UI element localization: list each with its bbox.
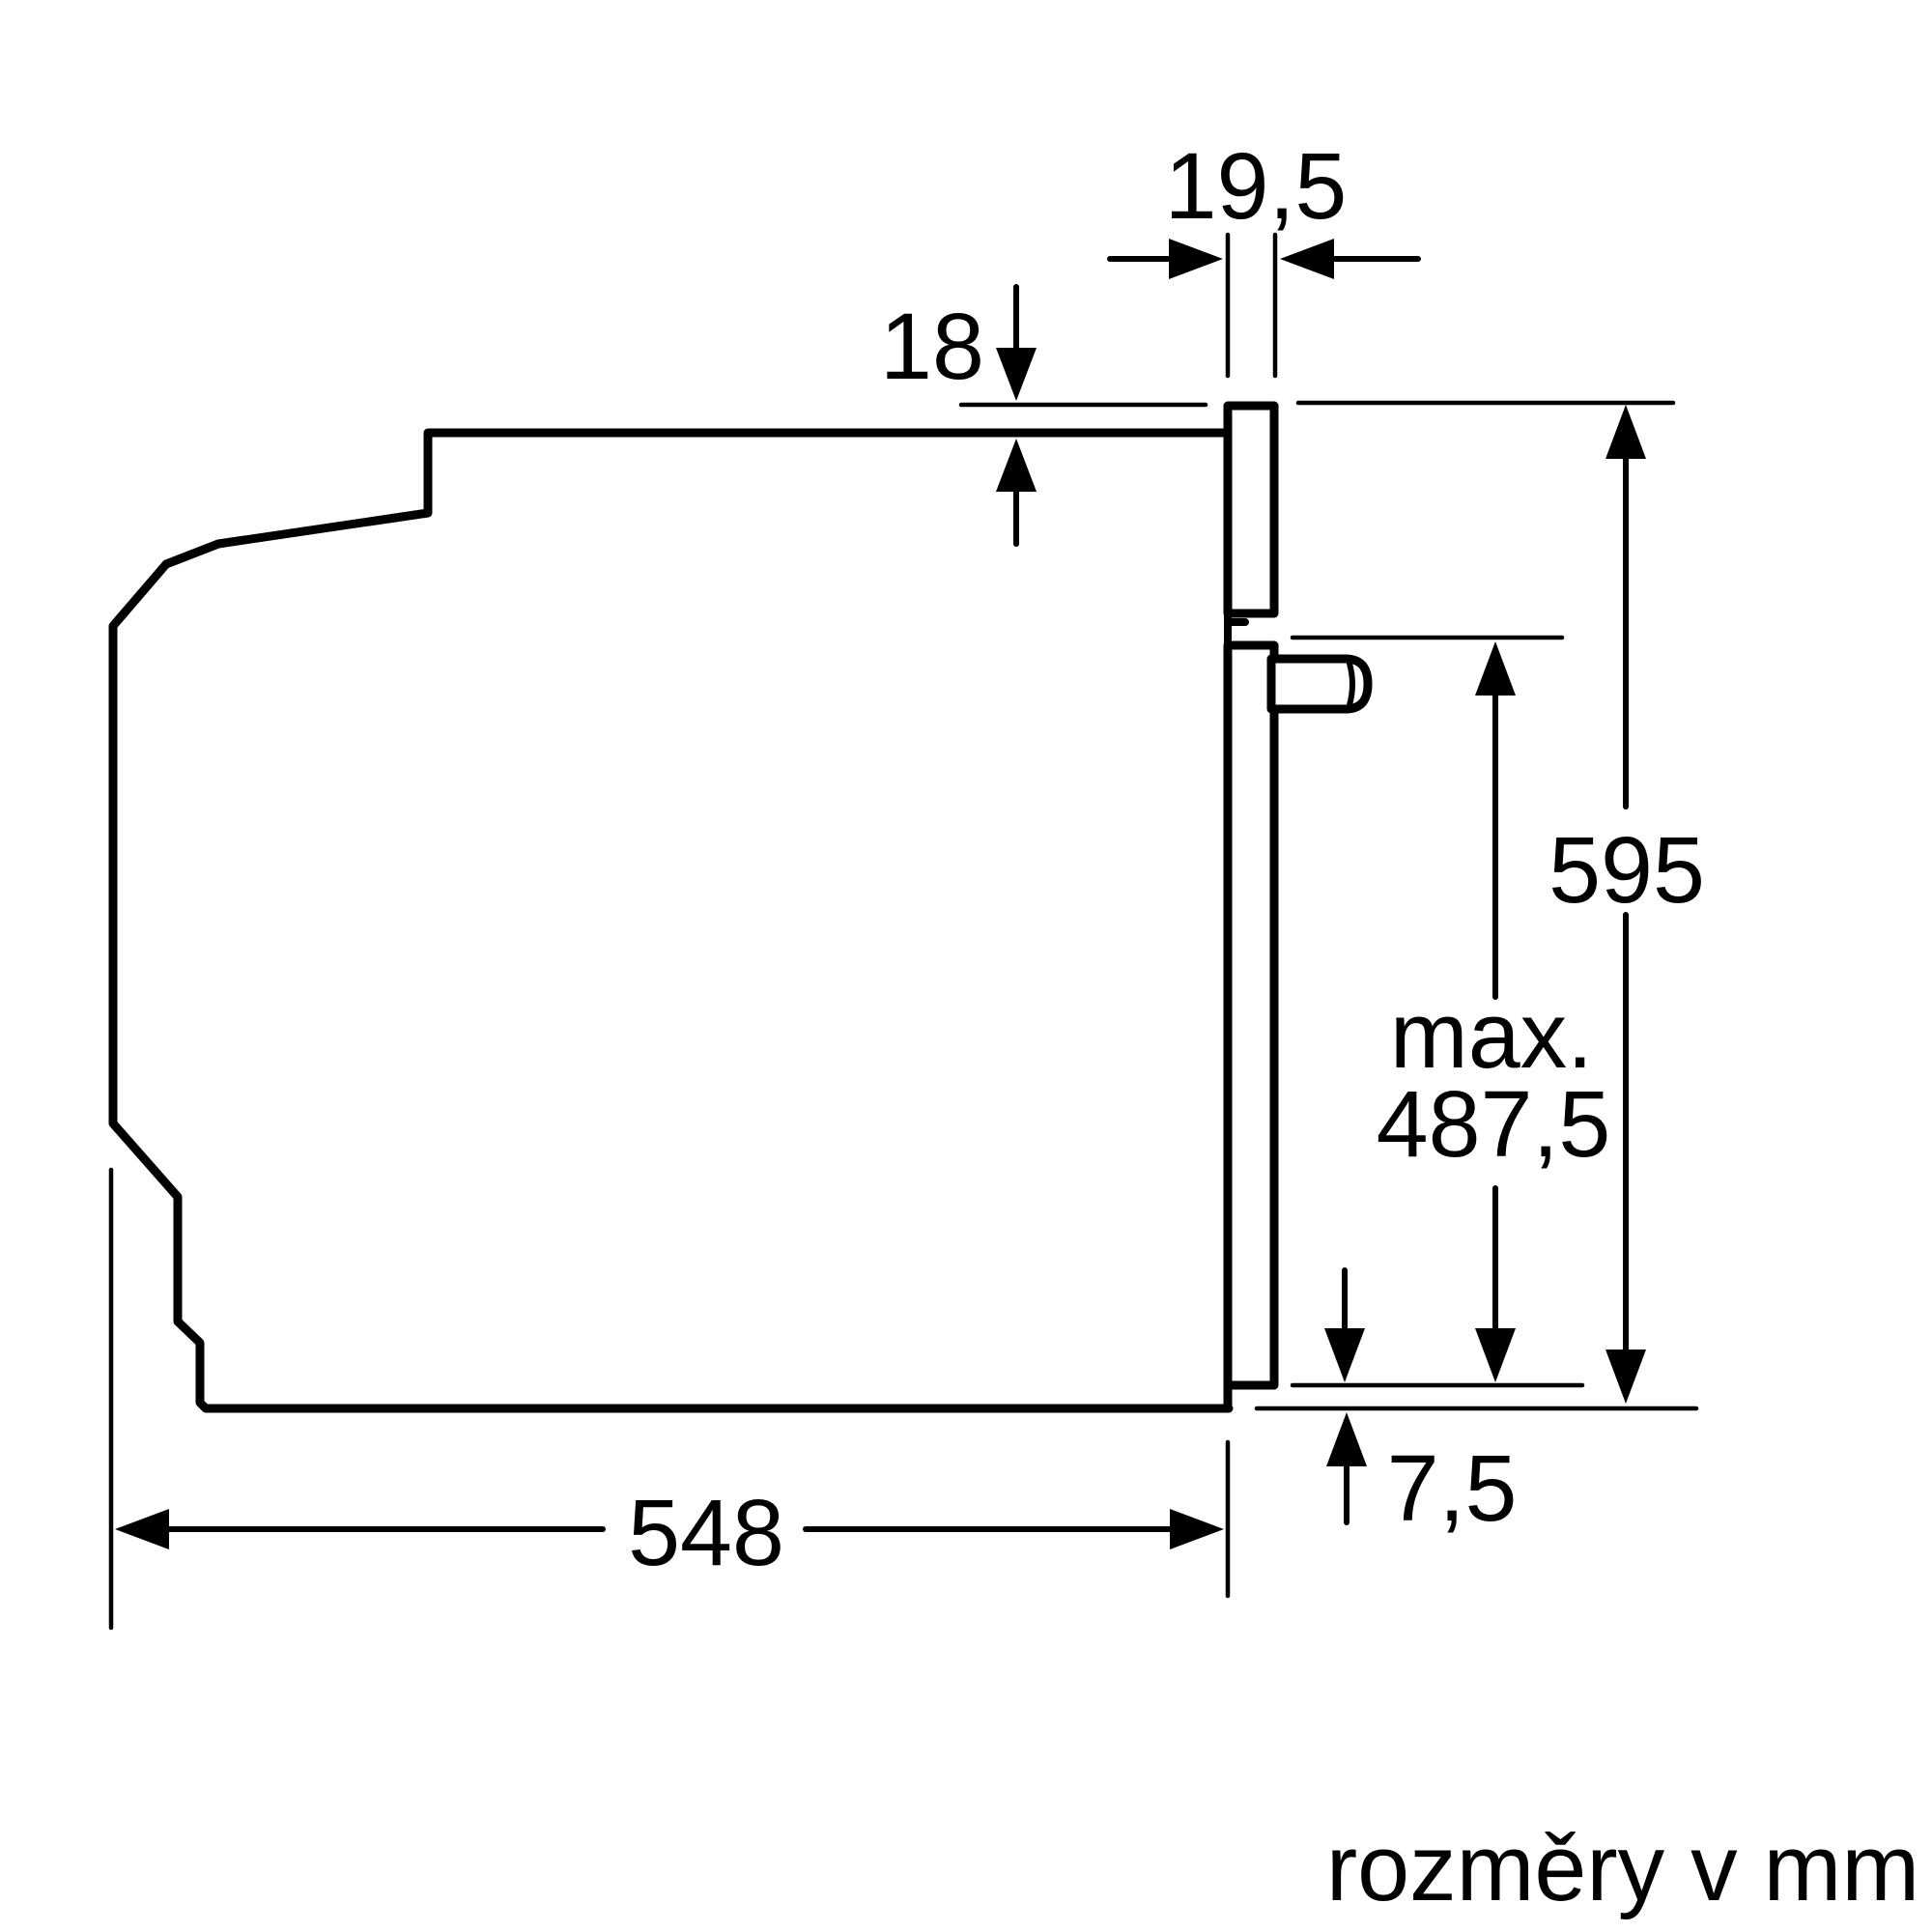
dim 18 upper arrow	[996, 287, 1037, 401]
door panel	[1228, 645, 1274, 1385]
hinge step tick	[1228, 613, 1245, 645]
svg-text:595: 595	[1548, 817, 1705, 923]
dim 18 lower arrow	[996, 439, 1037, 544]
ext line 19,5 left	[1226, 235, 1231, 376]
front frame strip	[1228, 406, 1274, 613]
ext line body bottom	[1257, 1406, 1696, 1411]
dim 487,5 line	[1475, 641, 1516, 1382]
svg-text:18: 18	[880, 294, 984, 399]
svg-text:7,5: 7,5	[1387, 1435, 1518, 1541]
dim 7,5 upper arrow	[1324, 1270, 1365, 1382]
svg-text:19,5: 19,5	[1165, 133, 1348, 239]
dim 19,5 left arrow	[1110, 239, 1223, 279]
svg-text:487,5: 487,5	[1377, 1071, 1611, 1177]
ext line top level left segment	[961, 403, 1206, 408]
dim 548 line	[115, 1509, 1224, 1549]
ext line 548 right	[1226, 1442, 1231, 1596]
ext line door bottom	[1293, 1383, 1582, 1388]
ext line 19,5 right	[1273, 235, 1278, 376]
oven body outline	[113, 433, 1229, 1408]
knob	[1271, 659, 1368, 709]
svg-text:rozměry v mm: rozměry v mm	[1326, 1815, 1919, 1920]
door lower wall extension	[1224, 1385, 1233, 1409]
ext line top level right segment	[1298, 401, 1673, 406]
dim 7,5 lower arrow	[1326, 1412, 1367, 1522]
knob face line	[1350, 664, 1352, 705]
svg-text:548: 548	[628, 1480, 784, 1585]
dim 19,5 right arrow	[1280, 239, 1418, 279]
dim 595 line	[1605, 405, 1646, 1404]
ext line knob top	[1293, 636, 1562, 640]
ext line 548 left	[109, 1170, 114, 1628]
